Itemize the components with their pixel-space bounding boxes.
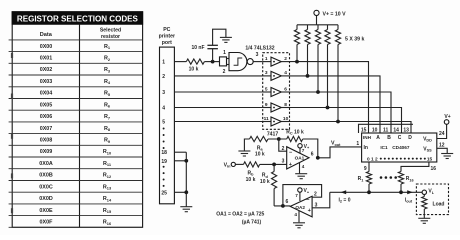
svg-text:Vin: Vin	[224, 162, 232, 168]
junction pull-up R2 node	[306, 74, 310, 78]
arrow I2 = 0	[339, 190, 351, 203]
wire buffer B4 output to IC1 address pin	[290, 108, 402, 134]
svg-text:11: 11	[383, 127, 389, 133]
svg-text:5: 5	[265, 86, 268, 92]
svg-text:13: 13	[403, 127, 409, 133]
svg-text:19: 19	[161, 159, 167, 165]
IC1 internal labels	[363, 135, 432, 162]
buffer IC box 7417	[263, 53, 290, 138]
junction pin19 bus	[184, 159, 188, 163]
svg-text:R8: R8	[104, 126, 111, 132]
buffer B1	[263, 56, 290, 66]
buffer B5	[263, 116, 290, 126]
svg-text:0X0D: 0X0D	[39, 196, 53, 202]
svg-text:0X04: 0X04	[40, 91, 53, 97]
svg-text:2: 2	[314, 192, 317, 198]
svg-text:0: 0	[367, 156, 370, 162]
svg-text:0X09: 0X09	[40, 149, 53, 155]
junction R1 rail	[367, 190, 371, 194]
svg-text:V+: V+	[304, 188, 310, 194]
svg-text:9: 9	[265, 102, 268, 108]
resistor R16	[398, 172, 413, 193]
svg-text:1/4 74LS132: 1/4 74LS132	[245, 45, 274, 51]
svg-text:R1: R1	[104, 44, 111, 50]
wire Rc to output node	[303, 139, 318, 158]
svg-text:7417: 7417	[267, 132, 278, 138]
svg-text:Selected: Selected	[100, 28, 121, 34]
svg-text:6: 6	[284, 86, 287, 92]
svg-text:V+: V+	[304, 144, 310, 150]
svg-text:R7: R7	[104, 114, 110, 120]
junction OA1 output	[316, 156, 320, 160]
wire data line D1 pin 2 to buffer	[174, 75, 262, 77]
svg-text:25: 25	[161, 190, 167, 196]
svg-text:In: In	[363, 145, 367, 151]
svg-text:OA1 = OA2 = µA 725: OA1 = OA2 = µA 725	[216, 212, 264, 218]
svg-text:R10: R10	[103, 149, 111, 155]
svg-text:10: 10	[283, 116, 289, 122]
svg-text:R1: R1	[358, 176, 364, 182]
wire OA2 pin 3 to rail	[312, 192, 330, 208]
svg-text:0X0A: 0X0A	[39, 161, 53, 167]
svg-text:D: D	[408, 135, 412, 141]
resistor load	[422, 195, 445, 219]
svg-text:11: 11	[264, 116, 269, 122]
svg-text:10 nF: 10 nF	[191, 45, 204, 51]
svg-text:7: 7	[302, 148, 305, 153]
svg-text:Ra: Ra	[257, 145, 264, 151]
terminal Vin	[224, 162, 236, 168]
svg-text:R11: R11	[103, 161, 112, 167]
resistor pull-up 5 of 5 X 39 k	[335, 25, 340, 122]
svg-text:10 k: 10 k	[260, 179, 270, 185]
resistor Rd 10 k	[260, 164, 277, 206]
junction pin25 bus	[184, 190, 188, 194]
ellipsis dots between R1 R16	[380, 176, 397, 179]
svg-text:3: 3	[282, 159, 285, 165]
svg-text:18: 18	[161, 150, 167, 156]
svg-text:R13: R13	[103, 184, 112, 190]
junction filter node	[211, 60, 215, 64]
svg-text:printer: printer	[159, 33, 175, 39]
wire buffer B3 output to IC1 address pin	[290, 92, 392, 133]
svg-text:10 k: 10 k	[255, 152, 265, 158]
svg-text:2: 2	[162, 74, 165, 80]
svg-text:5: 5	[162, 119, 165, 125]
wire output rail	[330, 191, 422, 193]
resistor pull-up 2 of 5 X 39 k	[305, 25, 310, 76]
resistor pull-up 3 of 5 X 39 k	[315, 25, 320, 92]
svg-text:VSS: VSS	[423, 146, 432, 152]
table: registor selection codes	[12, 12, 142, 228]
svg-text:12: 12	[439, 142, 445, 148]
ground VSS	[441, 154, 453, 159]
wire pin 1 to R input	[174, 61, 186, 63]
ground OA2	[293, 223, 305, 228]
page edge marks	[11, 53, 13, 213]
svg-text:0X07: 0X07	[40, 126, 53, 132]
ground OA1	[295, 174, 307, 179]
svg-text:14: 14	[393, 127, 399, 133]
svg-text:1: 1	[371, 156, 374, 162]
wire Ra to node	[268, 138, 287, 140]
load dashed box	[416, 184, 448, 215]
junction OA2 output	[281, 204, 285, 208]
resistor Ra 10 k	[250, 136, 269, 157]
svg-text:R9: R9	[104, 138, 111, 144]
svg-text:2: 2	[284, 56, 287, 62]
junction R16 rail	[399, 190, 403, 194]
svg-text:Iout: Iout	[405, 197, 413, 203]
wire OA2 pin 4	[298, 211, 300, 223]
svg-text:V+ = 10 V: V+ = 10 V	[323, 11, 347, 17]
wire Rb to pin 3	[260, 163, 287, 165]
wire IC1 pin 12 VSS to ground	[437, 148, 447, 153]
junction pin3 node	[272, 163, 276, 167]
svg-text:C: C	[398, 135, 402, 141]
wire data line D4 pin 5 to buffer	[174, 121, 262, 123]
svg-text:7: 7	[295, 193, 298, 198]
wire Ra ground stem	[244, 139, 249, 151]
wire IC1 pin 16 to R16	[401, 162, 429, 172]
svg-text:REGISTOR SELECTION CODES: REGISTOR SELECTION CODES	[17, 14, 138, 24]
resistor pull-up 4 of 5 X 39 k	[325, 25, 330, 108]
svg-text:0X01: 0X01	[40, 56, 53, 62]
resistor Rb 10 k	[244, 162, 260, 183]
svg-text:(µA 741): (µA 741)	[242, 219, 262, 225]
V+ terminal OA1 pin 7	[298, 144, 310, 154]
junction pull-up R4 node	[326, 106, 330, 110]
capacitor 10 nF	[191, 45, 217, 62]
arrow Iout	[405, 190, 413, 203]
table data rows	[39, 44, 112, 226]
svg-text:resistor: resistor	[101, 34, 120, 40]
svg-text:10 k: 10 k	[246, 177, 256, 183]
svg-text:4: 4	[162, 105, 165, 111]
svg-text:0X08: 0X08	[40, 138, 53, 144]
svg-text:0X03: 0X03	[40, 79, 53, 85]
svg-text:1: 1	[356, 141, 359, 147]
buffer B3	[263, 86, 290, 96]
svg-text:4: 4	[284, 70, 287, 76]
ground load	[418, 218, 430, 223]
wire node to pin 2	[279, 139, 287, 151]
svg-text:0X02: 0X02	[40, 67, 53, 73]
V+ 10V supply terminal	[314, 10, 346, 25]
svg-text:16: 16	[431, 166, 437, 172]
ground capacitor	[220, 37, 232, 42]
resistor Rc 10 k feedback	[286, 129, 304, 141]
connector pin numbers	[161, 60, 167, 197]
svg-text:R16: R16	[406, 176, 414, 182]
svg-text:R3: R3	[104, 67, 111, 73]
svg-text:Load: Load	[433, 201, 445, 207]
svg-text:0X0F: 0X0F	[40, 220, 54, 226]
svg-text:4: 4	[302, 164, 305, 169]
connector pin dots	[163, 128, 165, 187]
svg-text:9: 9	[364, 166, 367, 172]
junction pull-up R3 node	[316, 90, 320, 94]
svg-text:VL: VL	[428, 189, 434, 195]
buffer B2	[263, 70, 290, 80]
svg-text:RC 10 k: RC 10 k	[286, 129, 304, 135]
ground bus wire	[185, 152, 187, 206]
svg-text:8: 8	[284, 102, 287, 108]
svg-text:6: 6	[286, 199, 289, 205]
wire gate out to buffer	[253, 61, 263, 63]
wire OA1 pin 4	[299, 163, 301, 174]
svg-text:Rb: Rb	[248, 171, 255, 177]
svg-text:R6: R6	[104, 102, 111, 108]
table column divider	[79, 24, 81, 227]
svg-text:R4: R4	[104, 79, 111, 85]
svg-text:0X0C: 0X0C	[39, 184, 53, 190]
op-amp OA1	[287, 147, 309, 169]
resistor R1	[358, 172, 372, 193]
op-amp OA2	[290, 196, 312, 217]
svg-text:15: 15	[361, 127, 367, 133]
svg-text:R12: R12	[103, 173, 112, 179]
svg-text:Data: Data	[40, 32, 53, 38]
wire buffer B5 output to IC1 address pin	[290, 122, 412, 134]
svg-text:15: 15	[427, 156, 433, 162]
svg-text:VDD: VDD	[423, 137, 432, 143]
resistor 10 k input	[186, 59, 204, 64]
svg-text:OA1: OA1	[295, 156, 305, 161]
svg-text:6: 6	[311, 151, 314, 157]
wire pull-up bus	[297, 24, 338, 26]
svg-text:2: 2	[282, 146, 285, 152]
svg-text:3: 3	[315, 203, 318, 209]
svg-text:V+: V+	[444, 114, 450, 120]
table row lines	[9, 40, 143, 227]
table header row	[40, 28, 121, 40]
svg-text:5 X 39 k: 5 X 39 k	[345, 36, 364, 42]
IC1 channel dots	[380, 158, 426, 160]
svg-text:1: 1	[265, 56, 268, 62]
terminal VL	[422, 189, 435, 195]
wire Vin to Rb	[235, 163, 243, 165]
svg-text:Rd: Rd	[262, 173, 269, 179]
connector J1 PC printer port	[159, 27, 175, 204]
svg-text:10: 10	[372, 127, 378, 133]
wire IC1 pin 9 to R1	[368, 162, 370, 172]
svg-text:10 k: 10 k	[189, 67, 199, 73]
junction pull-up R1 node	[295, 60, 299, 64]
svg-text:OA2: OA2	[295, 205, 305, 210]
wire R to gate input	[204, 61, 219, 63]
svg-text:4: 4	[294, 212, 297, 217]
svg-text:B: B	[387, 135, 391, 141]
svg-text:1: 1	[162, 60, 165, 66]
wire buffer B1 output to IC1 address pin	[290, 62, 369, 133]
svg-text:CD4067: CD4067	[392, 145, 410, 150]
svg-text:INH: INH	[363, 135, 372, 140]
svg-text:1: 1	[223, 50, 226, 56]
svg-text:3: 3	[162, 90, 165, 96]
svg-text:3: 3	[256, 52, 259, 58]
wire data line D2 pin 3 to buffer	[174, 91, 262, 93]
V+ terminal IC1	[444, 114, 450, 124]
svg-text:port: port	[162, 40, 172, 46]
IC U1 CD4067 body	[359, 124, 437, 162]
ground Ra	[238, 151, 250, 156]
svg-text:R15: R15	[103, 208, 112, 214]
wire capacitor to ground	[213, 29, 226, 45]
wire Rd to OA2 output	[274, 205, 290, 207]
buffer B4	[263, 102, 290, 112]
wire Vout OA1 to IC1 pin 1	[318, 147, 362, 158]
wire IC1 pin 24 VDD to V+	[437, 124, 447, 138]
svg-text:PC: PC	[163, 27, 170, 33]
svg-text:R16: R16	[103, 220, 112, 226]
svg-text:3: 3	[265, 70, 268, 76]
note OA types	[216, 212, 264, 226]
wire buffer B2 output to IC1 address pin	[290, 76, 381, 133]
IC1 top pin numbers	[361, 127, 409, 133]
resistor pull-up 1 of 5 X 39 k	[294, 25, 299, 62]
svg-text:2: 2	[375, 156, 378, 162]
svg-text:24: 24	[439, 131, 445, 137]
ground connector	[180, 207, 192, 212]
svg-text:I2 = 0: I2 = 0	[339, 197, 351, 203]
svg-text:0X06: 0X06	[40, 114, 53, 120]
svg-text:0X00: 0X00	[40, 44, 53, 50]
svg-text:0X0E: 0X0E	[39, 208, 53, 214]
junction pull-up R5 node	[336, 120, 340, 124]
gate U2 1/4 74LS132	[220, 45, 275, 70]
svg-text:Vout: Vout	[331, 141, 341, 147]
svg-text:A: A	[376, 135, 380, 141]
svg-text:0X05: 0X05	[40, 102, 53, 108]
svg-text:R14: R14	[103, 196, 112, 202]
wire pin 18 to ground bus	[174, 151, 186, 153]
wire OA2 feedback pin 2	[283, 185, 322, 206]
svg-text:IC1: IC1	[380, 145, 388, 150]
svg-text:R5: R5	[104, 91, 111, 97]
svg-text:R2: R2	[104, 56, 111, 62]
wire pin 25 to ground bus	[174, 191, 186, 193]
wire data line D3 pin 4 to buffer	[174, 107, 262, 109]
svg-text:0X0B: 0X0B	[39, 173, 53, 179]
svg-text:2: 2	[223, 69, 226, 75]
V+ terminal OA2 pin 7	[295, 188, 310, 201]
junction pin2 node	[277, 137, 281, 141]
wire pin 19 to ground bus	[174, 160, 186, 162]
